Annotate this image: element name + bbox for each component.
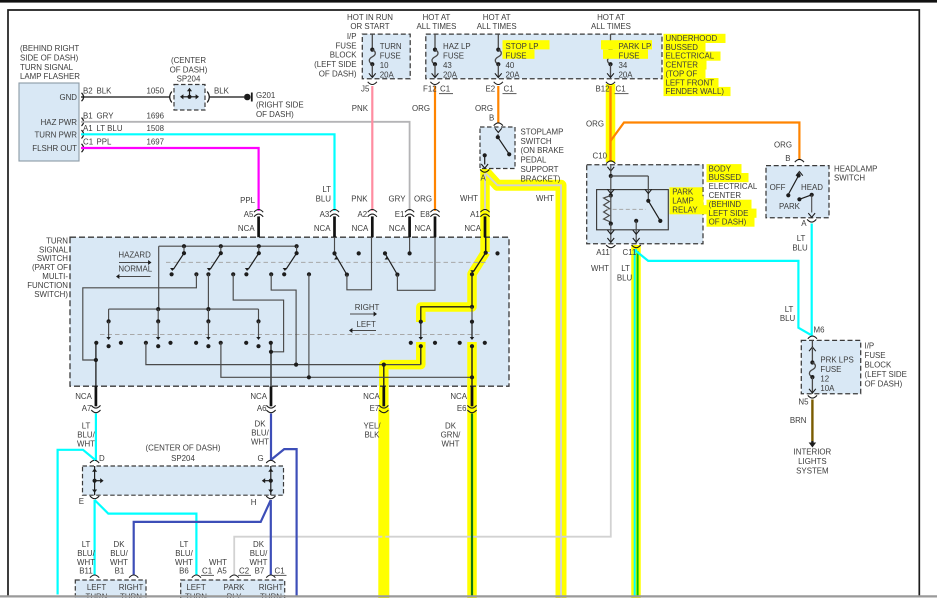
svg-text:LEFT SIDE: LEFT SIDE [709,209,749,218]
splice SP204 top symbol [170,92,172,103]
svg-text:20A: 20A [380,70,395,79]
svg-text:FUNCTION: FUNCTION [27,281,68,290]
svg-text:ELECTRICAL: ELECTRICAL [709,182,758,191]
BBEC C10 entry [607,167,614,171]
fuse F4 PARK LP FUSE 34 20A [610,34,612,50]
svg-text:E1: E1 [395,210,405,219]
connector F12/C1 [430,82,439,85]
svg-text:PARK: PARK [224,583,246,592]
wire DK BLU/WHT A6 to splice G [270,414,272,461]
svg-text:DK: DK [255,419,267,428]
wire LT BLU/WHT E to B11 [93,500,95,575]
svg-text:FUSE: FUSE [619,52,640,61]
svg-text:RIGHT: RIGHT [259,583,284,592]
underhood bussed electrical center box [426,34,662,79]
svg-text:43: 43 [443,61,452,70]
svg-text:A7: A7 [82,404,92,413]
svg-text:NCA: NCA [250,392,267,401]
svg-text:C1: C1 [202,567,212,576]
svg-text:ALL TIMES: ALL TIMES [477,22,517,31]
svg-text:34: 34 [619,61,628,70]
svg-text:LT: LT [180,540,189,549]
svg-text:40: 40 [506,61,515,70]
svg-text:DK: DK [445,421,457,430]
connector B stoplamp [494,123,503,126]
connector N5 [808,395,817,398]
border stoplamp switch [480,127,515,169]
connector A stoplamp [480,170,489,173]
svg-text:HOT AT: HOT AT [597,13,625,22]
svg-text:OF DASH): OF DASH) [865,379,903,388]
highlight UNDERHOOD BEC text [664,34,726,43]
svg-text:PARK LP: PARK LP [619,42,652,51]
svg-text:B: B [489,114,494,123]
svg-text:BLU/: BLU/ [77,549,95,558]
svg-text:E2: E2 [486,84,496,93]
E1 stub [409,237,411,253]
svg-text:YEL/: YEL/ [363,421,381,430]
mech dashed link upper [166,261,487,263]
park lamp relay box [597,190,669,230]
border body BEC [587,165,703,244]
svg-text:FUSE: FUSE [335,41,356,50]
svg-text:LAMP: LAMP [672,197,694,206]
svg-text:WHT: WHT [460,194,478,203]
svg-text:ORG: ORG [412,104,430,113]
connector A5/C2 park rly [230,575,239,578]
svg-text:(BEHIND: (BEHIND [709,200,742,209]
wire PNK from turn fuse [371,86,373,211]
connector C10 [606,161,615,164]
svg-text:ALL TIMES: ALL TIMES [591,22,631,31]
flasher connector arcs [82,93,84,101]
connector A11 [606,245,615,248]
svg-text:A1: A1 [470,210,480,219]
svg-text:B1: B1 [115,567,125,576]
svg-text:BUSSED: BUSSED [709,173,742,182]
border underhood BEC [426,34,662,79]
svg-text:SIDE OF DASH): SIDE OF DASH) [20,54,79,63]
svg-text:PARK: PARK [672,188,694,197]
svg-text:BRN: BRN [790,416,807,425]
top pins of turn signal switch [254,210,263,213]
svg-text:PPL: PPL [97,138,113,147]
connector B1 [129,575,138,578]
wire LT BLU/WHT A7 to splice D [95,414,97,461]
highlight: E6 grn wire to rear [467,408,477,598]
mech dashed link lower [100,334,480,336]
svg-text:SIGNAL: SIGNAL [39,245,69,254]
svg-text:B11: B11 [79,567,92,576]
highlight: E6 dk grn circuit [467,342,477,410]
svg-text:1508: 1508 [147,124,165,133]
hazard contact at 296.6 [295,244,299,248]
svg-text:LEFT: LEFT [357,320,376,329]
svg-text:TURN SIGNAL: TURN SIGNAL [20,63,74,72]
hazard bank rail [159,245,297,247]
highlight: stop lamp WHT circuit [480,169,490,252]
svg-text:FUSE: FUSE [380,52,401,61]
svg-text:B12: B12 [596,84,610,93]
A1 contact (highlighted path) [485,237,487,252]
svg-text:HAZ LP: HAZ LP [443,42,471,51]
svg-text:GRN/: GRN/ [441,430,462,439]
svg-text:1050: 1050 [147,87,165,96]
svg-text:ALL TIMES: ALL TIMES [417,22,457,31]
svg-text:A3: A3 [320,210,330,219]
svg-text:BUSSED: BUSSED [666,43,699,52]
svg-text:OF DASH): OF DASH) [256,110,294,119]
svg-text:OFF: OFF [770,183,786,192]
node C10 feed [609,174,613,178]
svg-text:SWITCH): SWITCH) [34,290,68,299]
turn contact at 208.4 [207,309,209,321]
border turn signal switch [70,237,509,386]
svg-text:FENDER WALL): FENDER WALL) [666,87,725,96]
lower cross horizontal [221,343,472,378]
wire LT BLU/WHT D branch to left front [58,450,96,595]
svg-text:RELAY: RELAY [672,205,698,214]
svg-text:STOP LP: STOP LP [506,42,539,51]
svg-text:LT: LT [785,305,794,314]
svg-text:(BEHIND RIGHT: (BEHIND RIGHT [20,44,79,53]
wire WHT stoplamp to rear stop lamps [486,173,561,598]
connector J5 [368,82,377,85]
svg-text:C1: C1 [440,84,450,93]
page top bar [0,0,937,3]
wire DK BLU/WHT H branch to B1 [134,500,271,575]
A2 web [347,237,372,290]
wire DK BLU/WHT G branch to right front [271,449,296,596]
svg-text:NCA: NCA [75,392,92,401]
svg-text:10A: 10A [820,384,835,393]
svg-text:HOT AT: HOT AT [423,13,451,22]
svg-text:B6: B6 [179,567,189,576]
svg-text:INTERIOR: INTERIOR [794,448,832,457]
svg-text:FUSE: FUSE [820,365,841,374]
svg-text:B: B [785,154,790,163]
svg-text:G201: G201 [256,91,275,100]
svg-text:E8: E8 [420,210,430,219]
highlight BODY BUSSED text [707,164,742,173]
svg-text:SWITCH: SWITCH [834,174,865,183]
svg-text:FLSHR OUT: FLSHR OUT [32,144,77,153]
svg-text:NORMAL: NORMAL [118,264,152,273]
svg-text:(LEFT SIDE: (LEFT SIDE [314,60,356,69]
svg-text:OF DASH): OF DASH) [709,218,747,227]
svg-text:FUSE: FUSE [506,52,527,61]
svg-text:B1: B1 [83,111,93,120]
wire WHT A11 to park rly connector [234,249,611,575]
connector C11 [632,245,641,248]
svg-text:WHT: WHT [536,194,554,203]
connector A headlamp [807,219,816,222]
svg-text:SP204: SP204 [171,454,195,463]
turn signal lamp flasher box fill [19,83,79,161]
svg-text:20A: 20A [619,70,634,79]
svg-text:BLOCK: BLOCK [865,361,892,370]
svg-text:BLU: BLU [792,244,808,253]
svg-text:OR START: OR START [350,22,389,31]
svg-text:NCA: NCA [363,392,380,401]
border I/P fuse block top [362,34,410,79]
relay K1 coil [609,193,613,197]
svg-text:FUSE: FUSE [865,351,886,360]
turn signal switch box [70,237,509,386]
border rear lamps connector [181,580,285,598]
connector M6 [808,336,817,339]
page bottom edge line [0,595,937,597]
svg-text:RIGHT: RIGHT [355,303,380,312]
svg-text:BLU: BLU [780,314,796,323]
svg-text:GRY: GRY [97,111,115,120]
contact web c3 right [271,274,296,364]
svg-text:F12: F12 [423,84,437,93]
svg-text:PEDAL: PEDAL [521,156,547,165]
border front turn lamps connector [75,580,146,598]
svg-text:BLK: BLK [97,87,113,96]
svg-text:NCA: NCA [389,224,406,233]
svg-text:NCA: NCA [352,224,369,233]
svg-text:BLU/: BLU/ [77,430,95,439]
highlight BEHIND LEFT SIDE OF DASH text [707,200,752,209]
wire YEL/BLK E7 [382,414,385,597]
hazard contact at 258.8 [257,244,261,248]
A7 internal [95,343,97,386]
svg-text:A6: A6 [257,404,267,413]
body bussed electrical center box [587,165,703,244]
svg-text:BLU/: BLU/ [175,549,193,558]
svg-text:LT BLU: LT BLU [97,124,123,133]
svg-text:H: H [251,498,257,507]
svg-text:STOPLAMP: STOPLAMP [521,127,564,136]
border splice SP204 top [174,85,205,111]
wire HAZ PWR B1 GRY 1696 [81,122,410,211]
svg-text:20A: 20A [506,70,521,79]
svg-text:SYSTEM: SYSTEM [796,467,828,476]
svg-text:LEFT: LEFT [87,583,106,592]
svg-text:E6: E6 [457,404,467,413]
svg-text:SP204: SP204 [177,75,201,84]
contact web c4 right [308,274,310,377]
svg-text:PNK: PNK [351,195,368,204]
ground G201 [244,94,251,101]
splice SP204 bottom box [83,466,284,495]
svg-text:BLU: BLU [617,274,633,283]
rear lamps connector box [181,580,285,598]
svg-text:HOT IN RUN: HOT IN RUN [347,13,393,22]
turn contact at 258.5 [258,309,260,321]
svg-text:SWITCH: SWITCH [521,137,552,146]
svg-text:C2: C2 [239,567,249,576]
right/left arrows [350,313,374,315]
highlight: park lp fuse ORG feed [606,84,616,162]
highlight PARK LAMP RELAY text [670,187,703,196]
svg-text:A11: A11 [596,248,609,257]
svg-text:(PART OF: (PART OF [32,263,68,272]
svg-text:C1: C1 [83,138,93,147]
svg-text:BODY: BODY [709,164,732,173]
svg-text:(CENTER: (CENTER [171,56,206,65]
svg-text:DK: DK [253,540,265,549]
svg-text:TURN: TURN [380,42,402,51]
svg-text:BLK: BLK [214,87,230,96]
svg-text:NCA: NCA [314,224,331,233]
wire LT BLU/WHT E branch to B6 [95,500,197,575]
highlight STOP LP FUSE text [503,40,550,49]
L5 contact dots [409,341,413,345]
svg-text:(TOP OF: (TOP OF [666,69,698,78]
svg-text:OF DASH): OF DASH) [170,65,208,74]
svg-text:C10: C10 [593,152,608,161]
hazard/normal arrows [119,262,149,264]
svg-text:RIGHT: RIGHT [119,583,144,592]
svg-text:BLU/: BLU/ [110,549,128,558]
svg-text:BLOCK: BLOCK [330,51,357,60]
splice SP204 top box [174,85,205,111]
svg-text:NCA: NCA [238,224,255,233]
svg-text:WHT: WHT [77,439,95,448]
svg-text:A: A [481,173,487,182]
svg-text:E7: E7 [370,404,380,413]
svg-text:LIGHTS: LIGHTS [798,457,827,466]
svg-text:BLU: BLU [316,195,332,204]
headlamp switch S2 [796,172,803,176]
A6 internal [270,343,272,386]
mid contact [383,251,387,255]
svg-text:WHT: WHT [591,264,609,273]
border I/P fuse block right [801,340,860,393]
connector H [266,496,275,499]
svg-text:TURN: TURN [46,236,68,245]
L6 contact from A1 [471,307,473,321]
svg-text:LEFT: LEFT [186,583,205,592]
svg-text:NCA: NCA [450,392,467,401]
relay K1 mech link [606,208,646,210]
svg-text:D: D [99,454,105,463]
svg-text:GRY: GRY [389,195,407,204]
svg-text:HOT AT: HOT AT [483,13,511,22]
rail drop to turn rail [158,246,160,309]
connector D [90,460,99,463]
svg-text:GND: GND [59,93,77,102]
turn contact at 158.2 [157,309,159,321]
svg-text:A: A [801,219,807,228]
fuse F5 PRK LPS FUSE 12 10A [811,340,813,347]
svg-text:ORG: ORG [414,195,432,204]
svg-text:PRK LPS: PRK LPS [820,356,853,365]
svg-text:BLU/: BLU/ [251,428,269,437]
svg-text:ELECTRICAL: ELECTRICAL [666,52,715,61]
svg-text:TURN PWR: TURN PWR [34,130,77,139]
svg-text:DK: DK [114,540,126,549]
wire DK GRN/WHT E6 [471,414,473,597]
A3 contact [334,237,336,253]
svg-text:ORG: ORG [475,104,493,113]
svg-text:(LEFT SIDE: (LEFT SIDE [865,370,907,379]
svg-text:HAZARD: HAZARD [118,250,151,259]
svg-text:10: 10 [380,61,389,70]
wire FLSHR OUT C1 PPL 1697 [81,148,259,211]
svg-text:G: G [258,454,264,463]
svg-text:CENTER: CENTER [666,61,699,70]
turn contact at 108.6 [108,309,110,321]
connector B7 [266,575,275,578]
svg-text:LT: LT [322,185,331,194]
svg-text:A1: A1 [83,124,93,133]
svg-text:FUSE: FUSE [443,52,464,61]
highlight: E7 yel wire to rear [378,408,389,598]
contact web c2 right [233,274,283,352]
wire grn tint under highlight C11 [637,251,639,596]
svg-text:CENTER: CENTER [709,191,742,200]
svg-text:WHT: WHT [251,437,269,446]
svg-text:B7: B7 [255,567,265,576]
svg-text:HAZ PWR: HAZ PWR [41,118,78,127]
E6 internal drop [471,346,473,386]
svg-text:NCA: NCA [464,224,481,233]
svg-text:(ON BRAKE: (ON BRAKE [521,146,564,155]
wire LT BLU C11 branch to PRK LPS fuse [636,249,811,335]
connector B11 [90,575,99,578]
svg-text:HEAD: HEAD [801,183,823,192]
contact web c1 [83,274,197,360]
bottom pins of turn signal switch [95,386,98,406]
svg-text:J5: J5 [361,84,370,93]
highlight PARK LP FUSE text [601,40,652,49]
relay K1 contact [646,199,650,203]
svg-text:PARK: PARK [779,202,801,211]
svg-text:HEADLAMP: HEADLAMP [834,164,877,173]
fuse F2 HAZ LP FUSE 43 20A [434,34,436,50]
svg-text:WHT: WHT [442,439,460,448]
svg-text:OF DASH): OF DASH) [319,70,357,79]
I/P fuse block box (right, PRK LPS) [801,340,860,393]
svg-text:I/P: I/P [347,32,357,41]
svg-text:12: 12 [820,374,829,383]
svg-text:ORG: ORG [586,120,604,129]
E7 horizontal [146,343,421,365]
wire LT BLU C11 down to lamps [634,249,636,596]
svg-text:C11: C11 [623,248,637,257]
svg-text:PNK: PNK [352,104,369,113]
svg-text:BRACKET): BRACKET) [521,174,561,183]
border splice SP204 bottom [83,466,284,495]
border headlamp switch [766,166,829,218]
connector B6 [192,575,201,578]
svg-text:LT: LT [621,264,630,273]
svg-text:BLU/: BLU/ [250,549,268,558]
svg-text:ORG: ORG [774,141,792,150]
wire ORG haz lp to E8 [434,86,436,211]
svg-text:N5: N5 [798,398,809,407]
svg-text:1697: 1697 [147,138,165,147]
wire ORG stop lp to stoplamp switch [497,86,499,123]
wire TURN PWR A1 LT BLU 1508 [81,134,335,211]
svg-text:M6: M6 [814,325,826,334]
svg-text:PPL: PPL [240,196,256,205]
svg-text:NCA: NCA [414,224,431,233]
hazard contact at 184 [182,244,186,248]
svg-text:E: E [79,497,84,506]
svg-text:I/P: I/P [865,342,875,351]
stoplamp switch box [480,127,515,169]
headlamp switch box [766,166,829,218]
connector B12/C1 [606,82,615,85]
I/P fuse block box (top) [362,34,410,79]
connector E [90,496,99,499]
svg-text:A5: A5 [244,210,254,219]
